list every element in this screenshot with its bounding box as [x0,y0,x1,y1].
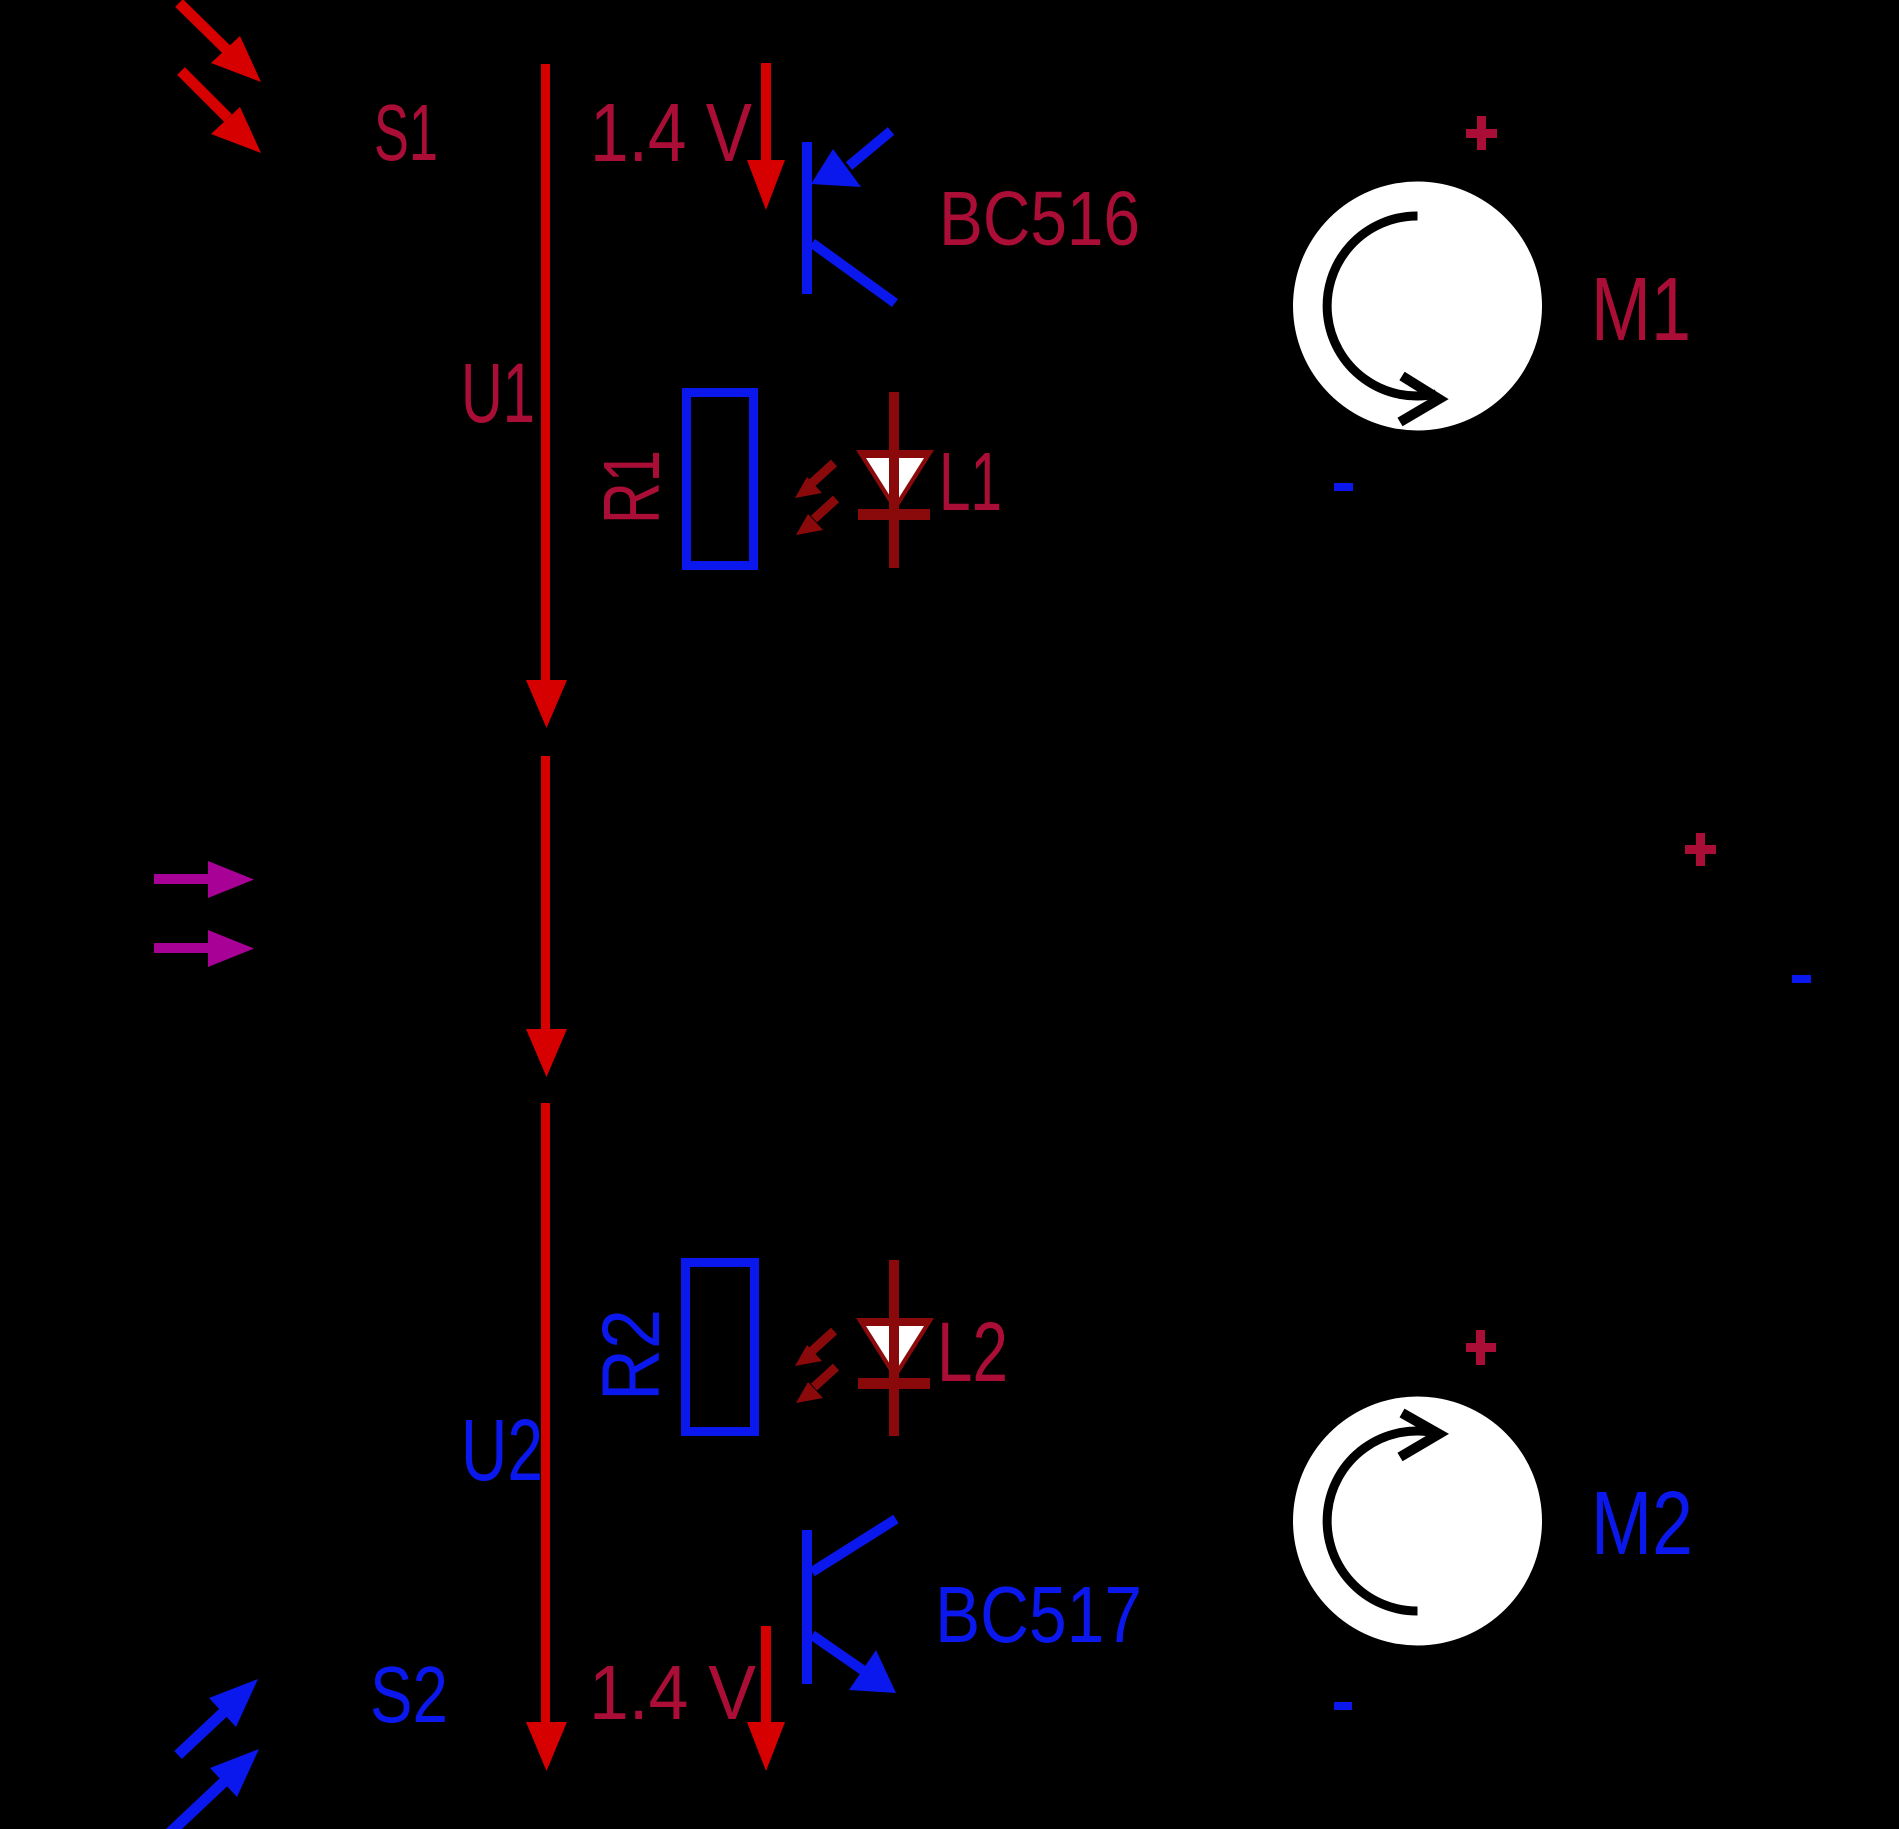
svg-text:BC517: BC517 [935,1570,1142,1659]
svg-text:U1: U1 [461,346,535,440]
svg-text:S2: S2 [370,1650,448,1739]
svg-text:L2: L2 [937,1305,1008,1399]
svg-text:R2: R2 [586,1309,677,1401]
svg-text:M1: M1 [1591,260,1691,360]
svg-text:L1: L1 [939,435,1002,528]
svg-text:BC516: BC516 [939,176,1140,262]
svg-text:1.4 V: 1.4 V [589,1650,757,1736]
svg-text:U2: U2 [461,1402,543,1499]
svg-text:R1: R1 [587,450,676,524]
svg-text:M2: M2 [1591,1474,1693,1574]
svg-text:1.4 V: 1.4 V [590,86,752,179]
svg-text:S1: S1 [374,88,438,177]
